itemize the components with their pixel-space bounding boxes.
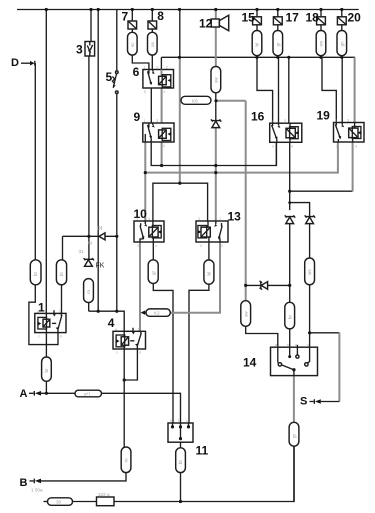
svg-text:2: 2 (221, 244, 223, 248)
svg-text:7: 7 (122, 9, 129, 23)
svg-text:3: 3 (284, 119, 286, 123)
svg-text:1: 1 (219, 217, 221, 221)
svg-text:3: 3 (76, 43, 83, 57)
svg-text:br: br (44, 368, 49, 373)
svg-text:15: 15 (242, 11, 256, 25)
svg-text:c: c (116, 351, 118, 355)
svg-text:4: 4 (108, 316, 115, 330)
svg-text:b: b (138, 328, 140, 332)
svg-text:gr: gr (275, 42, 280, 47)
svg-text:2: 2 (272, 145, 274, 149)
svg-text:S: S (300, 396, 307, 408)
svg-text:4: 4 (355, 145, 357, 149)
svg-text:bl: bl (59, 272, 64, 276)
svg-text:2: 2 (144, 144, 146, 148)
svg-text:d: d (307, 343, 309, 347)
svg-text:bl: bl (178, 460, 183, 464)
svg-text:2: 2 (137, 244, 139, 248)
svg-text:4: 4 (291, 145, 293, 149)
svg-text:1: 1 (144, 119, 146, 123)
svg-text:18: 18 (306, 11, 320, 25)
svg-text:4: 4 (155, 244, 157, 248)
svg-text:3: 3 (156, 66, 158, 70)
svg-text:a: a (115, 328, 117, 332)
svg-text:sc: sc (130, 42, 135, 47)
svg-text:11: 11 (196, 444, 209, 458)
svg-text:bl: bl (255, 43, 260, 47)
svg-text:1: 1 (271, 119, 273, 123)
svg-text:ro: ro (124, 458, 129, 463)
svg-text:30: 30 (56, 499, 62, 504)
svg-text:3: 3 (198, 217, 200, 221)
svg-text:4: 4 (163, 144, 165, 148)
svg-text:3: 3 (347, 119, 349, 123)
svg-text:14: 14 (243, 356, 257, 370)
svg-text:sw: sw (243, 311, 248, 317)
svg-text:c: c (295, 343, 297, 347)
svg-text:2: 2 (336, 145, 338, 149)
svg-text:1: 1 (335, 119, 337, 123)
svg-text:b: b (178, 419, 180, 423)
svg-text:3: 3 (148, 217, 150, 221)
svg-text:3: 3 (156, 119, 158, 123)
svg-text:b: b (59, 310, 61, 314)
svg-text:c: c (186, 419, 188, 423)
svg-text:9: 9 (134, 110, 141, 124)
svg-text:K2: K2 (154, 310, 160, 315)
svg-text:4: 4 (163, 90, 165, 94)
svg-text:gr: gr (292, 433, 297, 438)
svg-text:2: 2 (166, 66, 168, 70)
svg-text:d: d (60, 335, 62, 339)
svg-text:M: M (88, 241, 92, 246)
svg-text:bl: bl (207, 272, 212, 276)
svg-text:102 a: 102 a (98, 492, 110, 497)
svg-text:d: d (139, 351, 141, 355)
svg-text:a: a (170, 419, 172, 423)
svg-text:os: os (150, 41, 155, 47)
svg-text:31: 31 (79, 249, 85, 254)
svg-text:c: c (38, 335, 40, 339)
svg-text:5: 5 (144, 90, 146, 94)
svg-text:br: br (287, 314, 292, 319)
svg-text:13: 13 (228, 210, 242, 224)
svg-text:br: br (33, 271, 38, 276)
svg-text:20: 20 (348, 11, 362, 25)
svg-text:Df: Df (97, 226, 103, 232)
svg-text:gr: gr (151, 270, 156, 275)
svg-text:5: 5 (106, 70, 113, 84)
svg-text:D: D (11, 57, 19, 69)
svg-text:ro: ro (86, 289, 91, 294)
svg-text:8: 8 (157, 9, 164, 23)
svg-text:ws: ws (307, 269, 312, 275)
svg-text:1: 1 (38, 301, 45, 315)
svg-text:a*): a*) (84, 391, 90, 396)
svg-text:6: 6 (133, 65, 140, 79)
svg-text:17: 17 (286, 11, 300, 25)
svg-text:A: A (20, 388, 28, 400)
svg-text:16: 16 (251, 110, 265, 124)
svg-text:12: 12 (199, 17, 213, 31)
svg-text:1: 1 (136, 217, 138, 221)
svg-text:K6: K6 (192, 98, 198, 103)
svg-text:a: a (37, 310, 39, 314)
svg-text:sw: sw (213, 77, 218, 83)
svg-text:FK: FK (96, 263, 105, 270)
svg-text:b: b (287, 343, 289, 347)
svg-text:4: 4 (200, 244, 202, 248)
svg-text:gn: gn (339, 41, 344, 47)
svg-text:1 50a: 1 50a (31, 488, 43, 493)
svg-text:1: 1 (144, 66, 146, 70)
svg-text:ws: ws (319, 40, 324, 46)
svg-text:a: a (275, 343, 277, 347)
svg-text:19: 19 (317, 109, 331, 123)
svg-text:B: B (20, 477, 28, 489)
